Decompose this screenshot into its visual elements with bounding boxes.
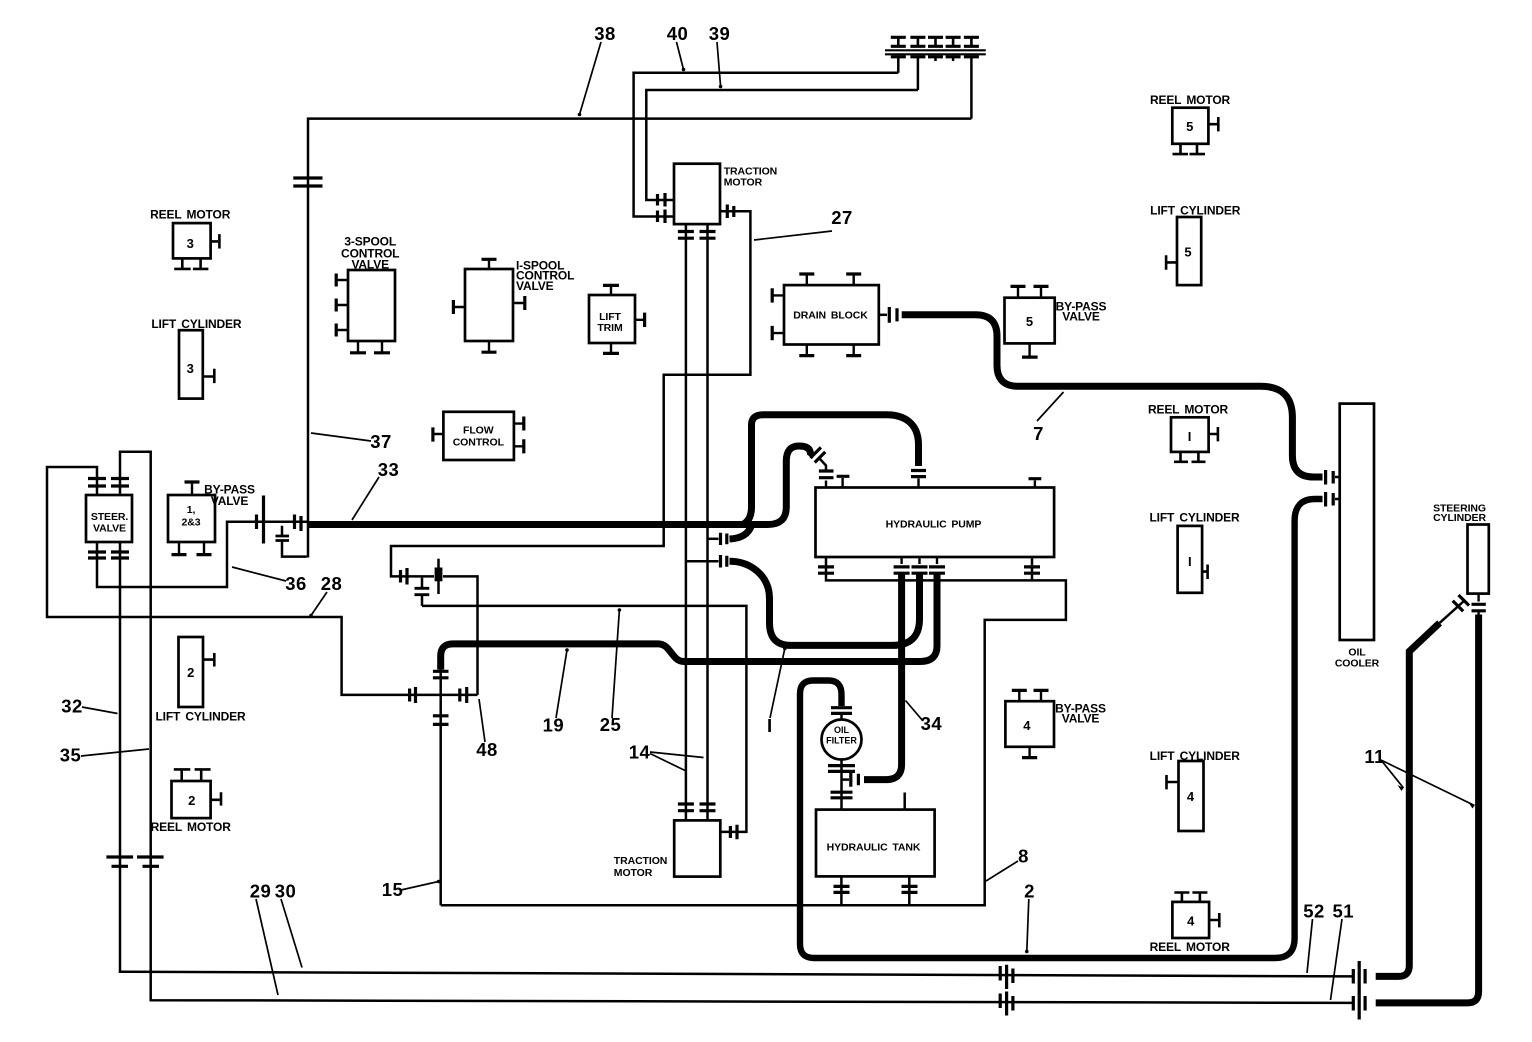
svg-text:DRAIN BLOCK: DRAIN BLOCK <box>793 310 868 322</box>
leader 30 <box>281 899 302 968</box>
svg-text:2: 2 <box>188 793 195 808</box>
couplings traction motor bottom stems <box>678 232 716 239</box>
svg-text:19: 19 <box>543 715 565 736</box>
reel motor 4 top stub ticks <box>1174 893 1207 902</box>
hose B (labels 19/48): pump bottom port down-around to 48 column <box>441 575 937 670</box>
svg-text:35: 35 <box>60 745 82 766</box>
hose 34: pump bottom port down to oil filter tee <box>864 575 902 780</box>
capacitor bars at hose 33 start <box>276 536 290 541</box>
svg-text:52: 52 <box>1303 900 1325 921</box>
svg-text:TRACTION: TRACTION <box>614 855 667 867</box>
lift cylinder 1 <box>1178 526 1203 593</box>
wire 48 column lower vertical <box>439 664 442 905</box>
leader 19 <box>556 650 567 718</box>
steering cylinder slash disconnect <box>1453 595 1469 611</box>
steer valve <box>86 495 132 542</box>
oil cooler inlet coupling <box>1326 470 1334 485</box>
capacitor bars at orifice cluster <box>415 588 430 594</box>
svg-text:28: 28 <box>321 573 343 594</box>
by-pass valve 1,2,3 stub ticks <box>179 483 204 555</box>
drain block <box>784 285 879 344</box>
leader 40 <box>677 42 684 70</box>
hydraulic pump <box>816 488 1055 558</box>
svg-text:CONTROL: CONTROL <box>453 437 505 449</box>
oil filter <box>822 720 862 760</box>
reel motor 4 <box>1172 902 1209 938</box>
by-pass valve 5 <box>1005 298 1055 344</box>
oil cooler <box>1340 404 1374 640</box>
svg-text:25: 25 <box>600 714 622 735</box>
reel motor 1 <box>1171 417 1209 452</box>
svg-text:VALVE: VALVE <box>1062 712 1100 726</box>
svg-text:4: 4 <box>1187 789 1195 804</box>
svg-text:32: 32 <box>61 696 83 717</box>
tank inlet coupling <box>831 792 853 798</box>
svg-text:11: 11 <box>1364 746 1385 767</box>
lift cylinder 2 right stub tick <box>203 653 214 667</box>
wire line 39 (top coupling row to traction motor upper-left port) <box>646 90 918 200</box>
couplings at lines 51/52 right end <box>1353 961 1365 1020</box>
svg-text:2: 2 <box>187 665 194 680</box>
svg-text:TRIM: TRIM <box>597 322 623 334</box>
pump slash disconnect <box>810 447 825 462</box>
svg-text:I: I <box>1188 554 1192 569</box>
pump arch port coupling <box>911 471 926 477</box>
leader 28 <box>311 592 327 616</box>
wire oil filter tee <box>842 778 850 781</box>
lift cylinder 5 left stub tick <box>1166 255 1177 270</box>
steer valve top port couplings <box>88 479 129 487</box>
svg-text:VALVE: VALVE <box>1062 310 1100 324</box>
svg-text:8: 8 <box>1018 846 1029 867</box>
leader 8 <box>986 861 1018 881</box>
orifice stem <box>437 559 440 594</box>
3-spool control valve <box>348 270 395 341</box>
lift cylinder 1 right stub tick <box>1202 565 1208 580</box>
leader 39 <box>717 42 721 87</box>
pump top port coupling (slash side) <box>819 471 834 478</box>
hose S-branch to right motor line coupling <box>730 526 752 540</box>
wire 35/29/51 line: steer valve top-right port long run to bottom right <box>120 452 1353 1003</box>
couplings on long left verticals <box>106 857 163 866</box>
capacitor symbol stems at hose 33 start <box>282 526 307 557</box>
wire line 40 (top coupling row to traction motor lower-left port) <box>634 73 899 217</box>
svg-text:REEL MOTOR: REEL MOTOR <box>1148 402 1229 416</box>
svg-text:LIFT CYLINDER: LIFT CYLINDER <box>1149 511 1240 525</box>
svg-text:FILTER: FILTER <box>826 736 857 746</box>
coupling row stems <box>898 57 971 119</box>
svg-text:LIFT CYLINDER: LIFT CYLINDER <box>1150 204 1241 218</box>
svg-text:VALVE: VALVE <box>351 258 389 272</box>
svg-text:7: 7 <box>1033 423 1044 444</box>
wire traction motor pair verticals (14) <box>686 224 708 820</box>
lift cylinder 3 right stub tick <box>203 369 215 383</box>
lift cylinder 3 <box>179 330 203 398</box>
orifice (filled square) on 27 cluster line <box>435 568 443 582</box>
coupling at hose 33 S-branch <box>721 533 727 545</box>
hydraulic tank <box>816 810 935 877</box>
oil filter bottom coupling <box>828 766 855 772</box>
by-pass valve 5 stub ticks <box>1018 287 1041 357</box>
wire 27 path: traction motor right port down-around to cluster <box>391 211 750 576</box>
by-pass valve 4 <box>1005 701 1054 747</box>
wire pump slash link <box>820 459 827 471</box>
oil filter tee coupling <box>851 772 859 786</box>
reel motor 5 <box>1172 108 1208 144</box>
svg-text:VALVE: VALVE <box>93 523 126 535</box>
flow control stub ticks <box>433 424 523 447</box>
svg-text:REEL MOTOR: REEL MOTOR <box>150 207 231 221</box>
coupling traction motor lower-left port <box>658 210 666 224</box>
wire tank bottom stems <box>841 876 909 905</box>
svg-text:4: 4 <box>1187 914 1195 929</box>
leader 32 <box>82 707 118 714</box>
svg-text:4: 4 <box>1023 718 1031 733</box>
wire oil filter tank stem <box>840 715 843 810</box>
lift cylinder 4 left stub tick <box>1167 775 1179 789</box>
svg-text:34: 34 <box>921 713 943 734</box>
svg-text:5: 5 <box>1026 314 1033 329</box>
wire cluster to 48 cross corner <box>443 576 478 695</box>
svg-text:1,: 1, <box>187 504 196 516</box>
reel motor 3 right stub tick <box>211 234 220 248</box>
wire hose A stub from left motor line <box>687 560 719 563</box>
3-spool valve bottom port bars <box>358 341 382 352</box>
svg-text:3: 3 <box>187 236 194 251</box>
pump top capped stub bars <box>837 476 1042 478</box>
reel motor 3 <box>173 223 211 258</box>
couplings on 48 cross line <box>410 687 467 703</box>
leader 37 <box>311 433 371 441</box>
coupling on line 38 vertical <box>293 178 322 186</box>
coupling pair at hose 33 start <box>257 496 302 544</box>
svg-text:HYDRAULIC PUMP: HYDRAULIC PUMP <box>886 519 982 531</box>
node: manifold double line at top <box>885 50 986 54</box>
svg-text:48: 48 <box>476 739 498 760</box>
hose A (label 1): left motor line coupling to pump bottom port <box>730 561 920 645</box>
svg-text:VALVE: VALVE <box>516 279 554 293</box>
hose arch branch to pump top port <box>743 415 919 525</box>
wide coupling bars on 48 column <box>433 671 449 724</box>
leader 34 <box>906 701 924 722</box>
hose 52: steering cylinder left line down to coupling <box>1376 623 1440 977</box>
coupling at hose A start <box>721 555 727 568</box>
traction motor (top) <box>674 164 720 224</box>
svg-text:2&3: 2&3 <box>182 517 201 529</box>
svg-text:LIFT CYLINDER: LIFT CYLINDER <box>1150 749 1241 763</box>
flow control valve <box>443 412 514 460</box>
reel motor 2 <box>172 781 211 818</box>
svg-text:LIFT CYLINDER: LIFT CYLINDER <box>151 317 242 331</box>
leader 36 <box>232 567 286 581</box>
svg-text:REEL MOTOR: REEL MOTOR <box>1150 940 1231 954</box>
leader 51 <box>1331 919 1343 1000</box>
coupling at drain block right port <box>889 307 897 323</box>
svg-text:REEL MOTOR: REEL MOTOR <box>1150 93 1231 107</box>
svg-text:CYLINDER: CYLINDER <box>1433 512 1486 524</box>
lift trim valve <box>589 295 635 343</box>
svg-text:27: 27 <box>831 207 853 228</box>
wire steering cylinder diagonal thin <box>1440 601 1465 623</box>
leader 15 <box>401 882 439 891</box>
leader 11 <box>1381 760 1475 806</box>
wire 32/30/52 line: steer valve bottom-right port long run to bottom right <box>120 542 1353 976</box>
svg-text:I: I <box>767 715 773 736</box>
hose 33 (thick supply from steer area to candy-cane at pump) <box>308 446 811 525</box>
leader 2 <box>1027 899 1029 952</box>
1-spool valve stub ticks <box>454 260 524 352</box>
tank bottom port couplings <box>834 886 918 892</box>
leader 38 <box>580 42 602 115</box>
leader 29 <box>256 899 278 995</box>
drain block top stub ticks <box>807 275 854 286</box>
hose 7: drain block to oil cooler inlet <box>902 315 1323 477</box>
couplings bottom traction motor top stems <box>678 804 716 811</box>
svg-text:5: 5 <box>1184 244 1191 259</box>
reel motor 1 bottom port bars <box>1174 452 1206 462</box>
svg-text:VALVE: VALVE <box>211 494 249 508</box>
svg-text:3: 3 <box>187 361 194 376</box>
traction motor (bottom) <box>674 820 720 876</box>
drain block left stub ticks <box>773 295 784 333</box>
hose 51: steering cylinder right line down to coupling <box>1376 615 1479 1003</box>
svg-text:COOLER: COOLER <box>1335 658 1380 670</box>
svg-text:36: 36 <box>285 573 307 594</box>
leader 52 <box>1307 919 1313 973</box>
lift cylinder 4 <box>1179 761 1204 831</box>
svg-text:OIL: OIL <box>834 725 850 735</box>
reel motor 1 right stub tick <box>1209 427 1218 441</box>
coupling pair on orifice cluster line <box>401 568 408 585</box>
wire 36 line: steer valve bottom-left port to hose 33 coupling <box>97 522 308 587</box>
couplings on lines 29/30 mid <box>1000 965 1013 1016</box>
svg-text:14: 14 <box>629 742 651 763</box>
pump bottom port couplings <box>818 567 1040 573</box>
svg-text:2: 2 <box>1024 881 1035 902</box>
reel motor 5 bottom port bars <box>1173 144 1206 154</box>
by-pass valve 1,2,3 <box>168 495 215 542</box>
hose 2: oil filter arch down along bottom up to oil cooler return <box>800 499 1323 958</box>
svg-text:39: 39 <box>709 23 731 44</box>
svg-text:MOTOR: MOTOR <box>724 177 763 189</box>
leader 48 <box>479 699 485 742</box>
leader 35 <box>81 749 149 756</box>
oil cooler return coupling <box>1326 492 1334 507</box>
wire tank vent stub <box>903 793 906 810</box>
wire hose 33 stub from right motor line <box>708 538 719 541</box>
leader 14 <box>650 752 704 771</box>
reel motor 3 bottom port bars <box>174 258 208 269</box>
lift cylinder 5 <box>1177 217 1201 285</box>
steering cylinder stem coupling <box>1477 594 1479 616</box>
drain block bottom stub ticks <box>807 345 854 356</box>
1-spool control valve <box>465 269 513 341</box>
by-pass valve 4 stub ticks <box>1019 691 1041 757</box>
wire 8/15 line: pump bottom-left port around tank to 48 column <box>441 557 1066 905</box>
svg-text:30: 30 <box>275 881 297 902</box>
wire 25 line: capacitor stem across to bottom traction motor right port <box>422 606 746 832</box>
leader 1 <box>770 649 785 719</box>
lift cylinder 2 <box>179 637 204 707</box>
reel motor 4 right stub tick <box>1209 913 1219 927</box>
svg-text:38: 38 <box>594 23 616 44</box>
steer valve bottom port couplings <box>88 552 129 558</box>
wire drain block right stub <box>879 314 887 317</box>
coupling bottom traction motor right port <box>730 825 737 840</box>
svg-text:29: 29 <box>250 881 272 902</box>
svg-text:STEER.: STEER. <box>91 511 129 523</box>
steering cylinder <box>1468 525 1489 594</box>
svg-text:LIFT CYLINDER: LIFT CYLINDER <box>155 710 246 724</box>
svg-text:HYDRAULIC TANK: HYDRAULIC TANK <box>827 842 921 854</box>
svg-text:40: 40 <box>667 23 689 44</box>
svg-text:FLOW: FLOW <box>463 425 494 437</box>
svg-text:51: 51 <box>1333 900 1355 921</box>
coupling traction motor right port <box>727 205 734 219</box>
reel motor 2 right stub tick <box>211 792 221 805</box>
svg-text:I: I <box>1188 429 1192 444</box>
leader 33 <box>352 477 379 520</box>
wire line 38 (top coupling row across to left vertical down to hose 33 start) <box>308 119 971 558</box>
svg-text:33: 33 <box>378 459 400 480</box>
svg-text:MOTOR: MOTOR <box>614 867 653 879</box>
lift trim stub ticks <box>611 286 644 353</box>
wire oil cooler port stubs <box>1335 477 1340 499</box>
wire 28 line: steer valve top-left port loop to cross line <box>47 467 478 695</box>
svg-text:15: 15 <box>382 879 404 900</box>
leader 25 <box>612 610 619 718</box>
oil filter top coupling <box>831 708 852 714</box>
svg-text:37: 37 <box>370 431 392 452</box>
wire pump bottom-right port stem <box>1031 557 1034 580</box>
svg-text:REEL MOTOR: REEL MOTOR <box>151 820 232 834</box>
reel motor 2 top port bars <box>174 769 211 781</box>
svg-text:5: 5 <box>1186 119 1193 134</box>
reel motor 5 right stub tick <box>1208 117 1218 131</box>
leader dots <box>578 113 582 117</box>
manifold couplings row (5 disconnects) <box>891 36 979 39</box>
leader 27 <box>754 231 832 240</box>
3-spool valve left stub ticks <box>337 280 348 330</box>
coupling traction motor upper-left port <box>658 193 666 207</box>
capacitor symbol stems at orifice cluster <box>421 578 424 606</box>
leader 7 <box>1037 392 1064 421</box>
